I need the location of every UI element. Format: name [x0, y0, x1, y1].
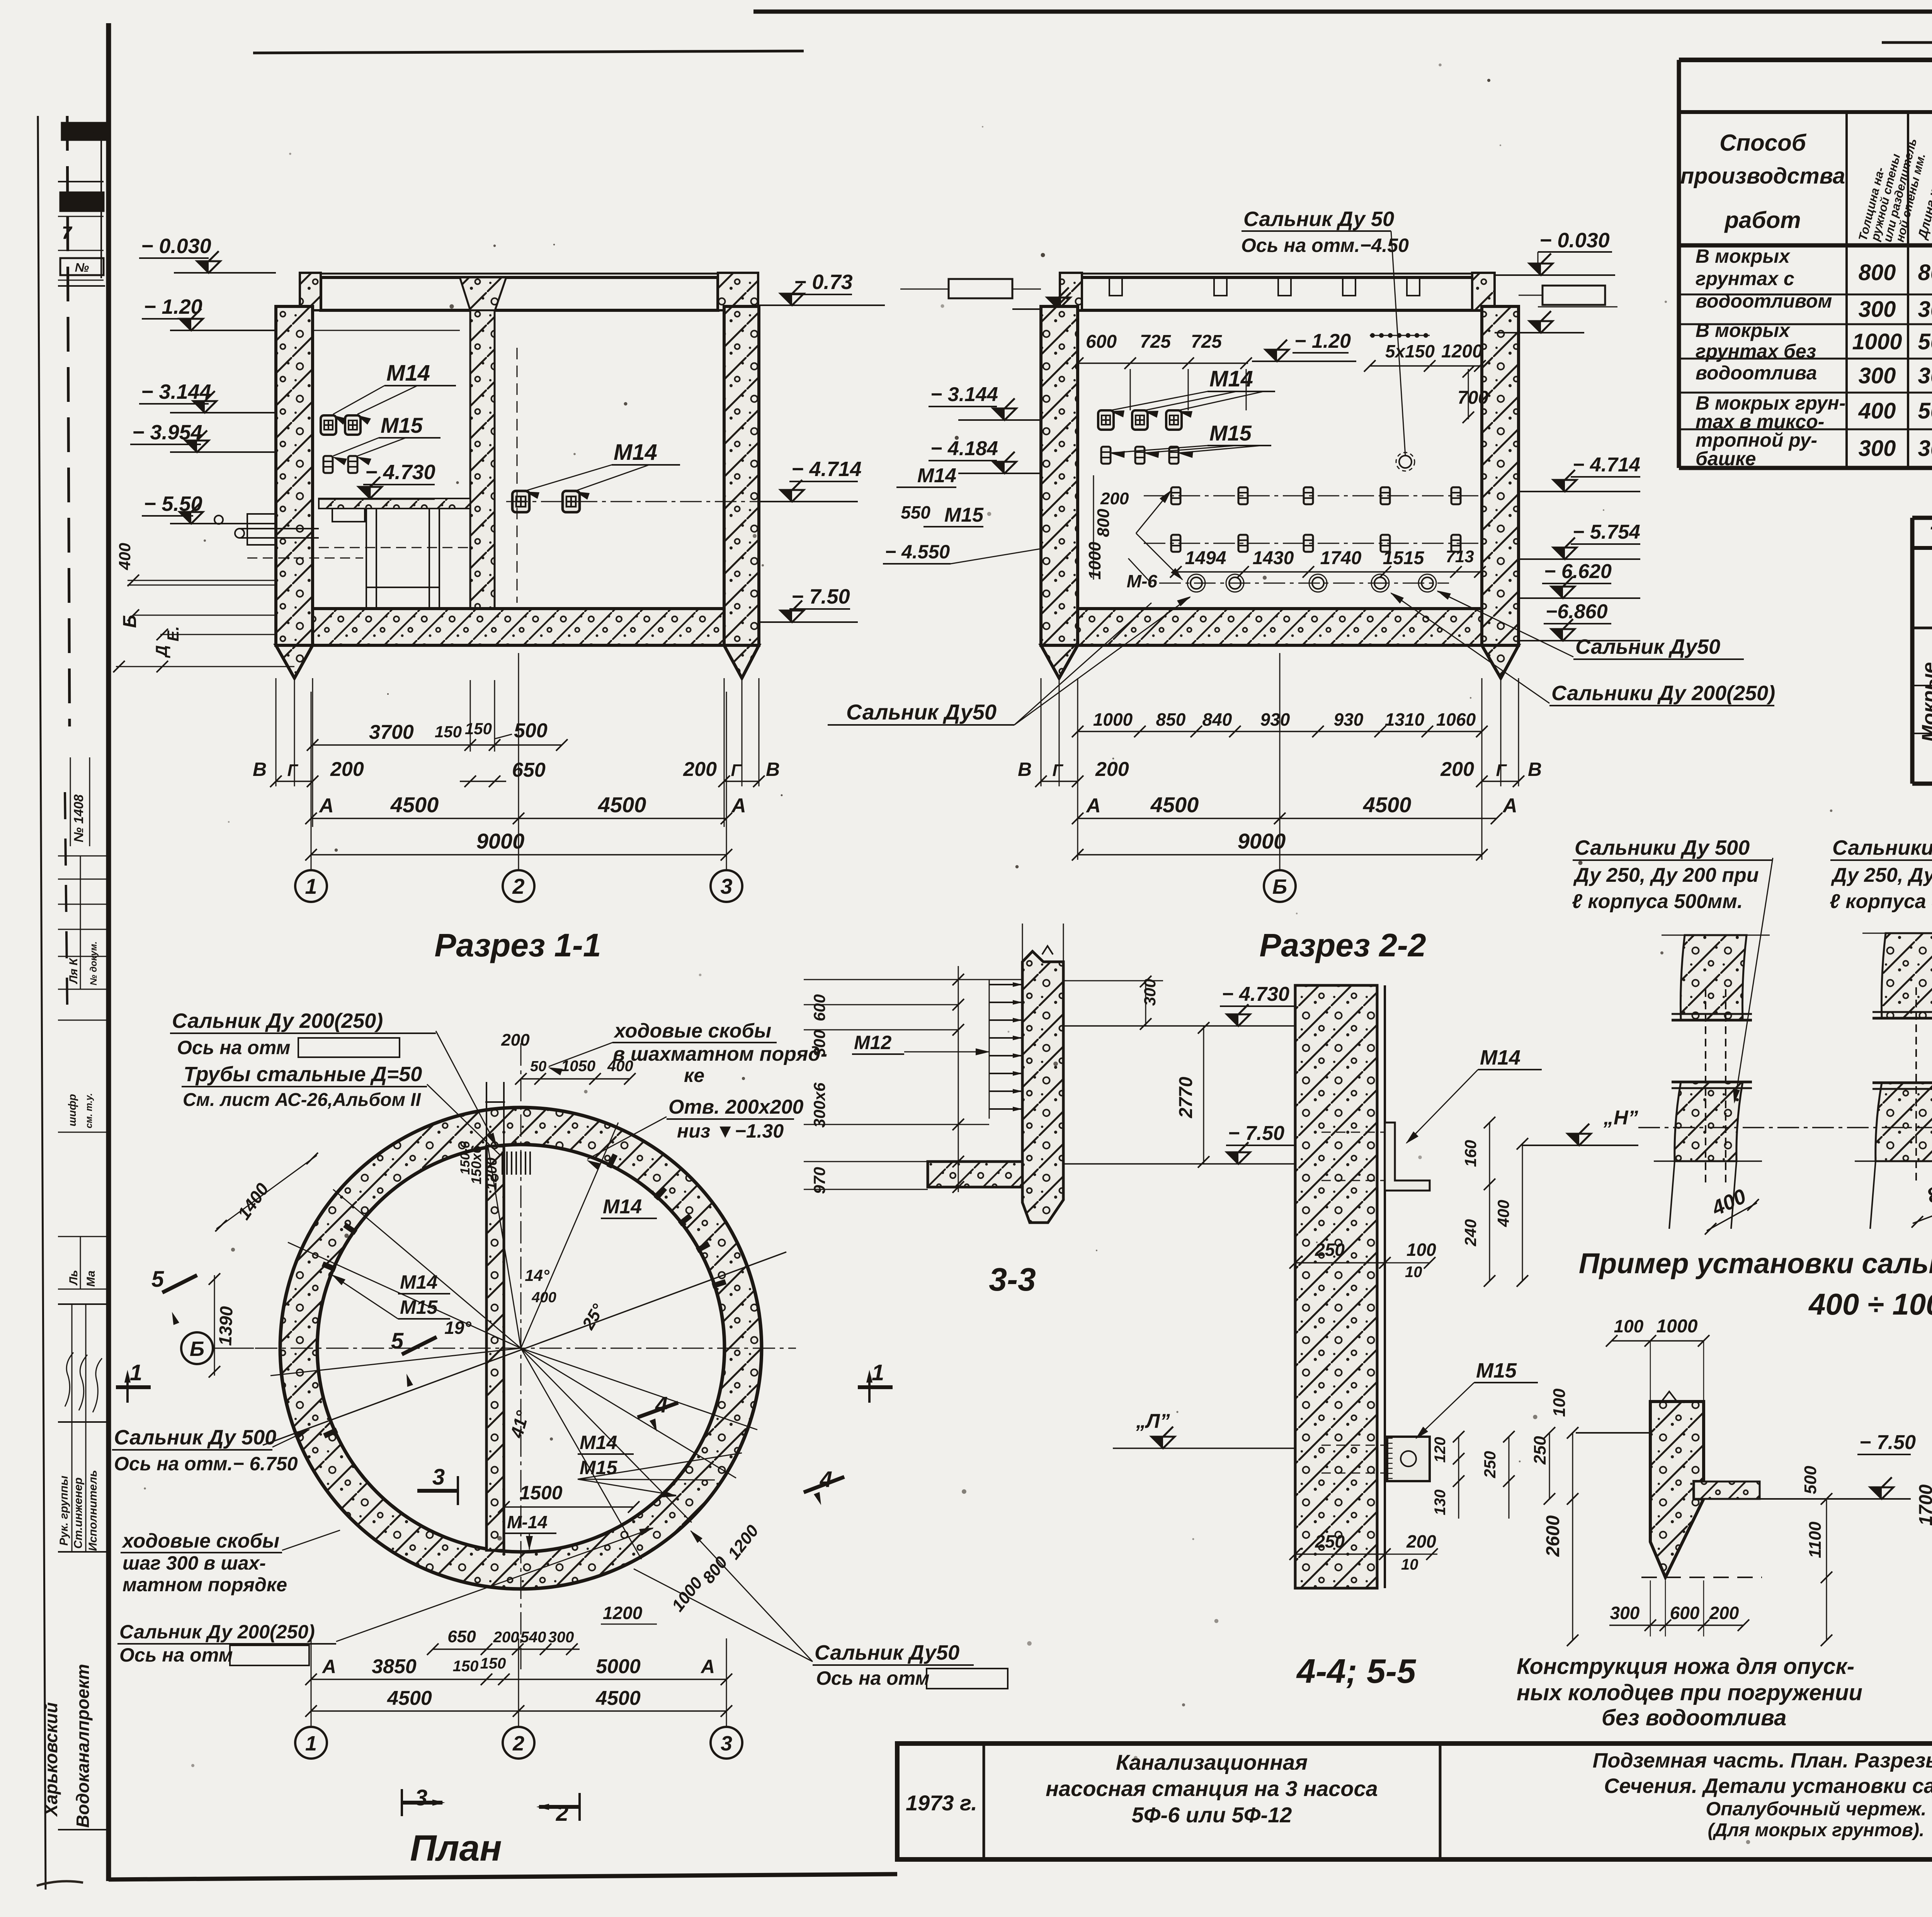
svg-text:Рук. группы: Рук. группы: [58, 1476, 70, 1546]
ground blocks 2-2: [949, 279, 1012, 298]
svg-text:Сальники Ду 500: Сальники Ду 500: [1832, 836, 1932, 859]
svg-text:725: 725: [1140, 332, 1171, 352]
svg-text:800: 800: [1094, 509, 1113, 537]
svg-text:Сальник Ду 500: Сальник Ду 500: [114, 1426, 276, 1449]
bottom slab 2-2: [1078, 609, 1482, 645]
svg-text:см. т.у.: см. т.у.: [84, 1093, 94, 1128]
svg-text:300x6: 300x6: [810, 1082, 828, 1128]
svg-text:Опалубочный чертеж.: Опалубочный чертеж.: [1706, 1798, 1926, 1820]
3-3 wall: [1022, 951, 1063, 1223]
svg-text:4500: 4500: [390, 793, 439, 817]
scan specks: [940, 304, 944, 308]
svg-text:− 0.030: − 0.030: [1539, 229, 1610, 252]
svg-text:100: 100: [1406, 1240, 1436, 1260]
svg-text:М14: М14: [386, 361, 430, 386]
svg-text:ℓ корпуса 800мм.: ℓ корпуса 800мм.: [1830, 890, 1932, 913]
svg-text:Г: Г: [731, 761, 742, 780]
svg-text:Г: Г: [287, 761, 298, 780]
svg-text:850: 850: [1156, 709, 1186, 730]
svg-text:− 7.50: − 7.50: [1859, 1431, 1916, 1454]
svg-text:ходовые скобы: ходовые скобы: [613, 1020, 771, 1042]
svg-text:М-14: М-14: [507, 1512, 548, 1532]
svg-text:1: 1: [872, 1360, 884, 1385]
svg-text:150: 150: [480, 1655, 506, 1672]
left margin stamps: [62, 123, 105, 140]
svg-text:ке: ке: [684, 1065, 704, 1086]
svg-text:500: 500: [1918, 329, 1932, 354]
svg-text:Ось на отм: Ось на отм: [816, 1667, 930, 1689]
svg-text:Б: Б: [120, 615, 140, 628]
svg-text:300: 300: [1918, 297, 1932, 322]
table1 Выборка сальников: [1882, 41, 1932, 44]
table2 Таблица размеров ножей: [1912, 516, 1932, 520]
svg-text:А: А: [321, 1656, 336, 1677]
svg-text:300: 300: [810, 1030, 828, 1057]
svg-text:−6.860: −6.860: [1546, 600, 1608, 623]
svg-text:1430: 1430: [1253, 548, 1294, 568]
svg-text:9000: 9000: [1238, 829, 1286, 853]
svg-text:М14: М14: [1480, 1046, 1520, 1069]
svg-text:500: 500: [1801, 1466, 1820, 1494]
svg-text:В: В: [253, 759, 267, 780]
svg-text:№: №: [75, 260, 89, 274]
svg-text:713: 713: [1446, 547, 1474, 566]
svg-text:400: 400: [1494, 1200, 1512, 1227]
svg-text:Ля К: Ля К: [67, 957, 80, 984]
svg-text:300: 300: [1610, 1603, 1640, 1623]
svg-text:Сальник Ду 200(250): Сальник Ду 200(250): [172, 1009, 383, 1032]
svg-text:50: 50: [530, 1058, 546, 1075]
dims row4 1-1: 9000: [311, 854, 726, 856]
svg-text:ℓ корпуса 500мм.: ℓ корпуса 500мм.: [1572, 890, 1743, 913]
svg-text:500: 500: [514, 720, 548, 742]
svg-text:− 0.73: − 0.73: [794, 270, 853, 294]
svg-text:550: 550: [901, 502, 930, 522]
svg-text:600: 600: [810, 994, 828, 1021]
3-3 left dims: [958, 966, 959, 1192]
svg-text:1000: 1000: [1656, 1316, 1698, 1337]
svg-text:грунтах без: грунтах без: [1696, 340, 1816, 362]
svg-text:водоотлива: водоотлива: [1696, 362, 1817, 384]
svg-text:10: 10: [1405, 1264, 1422, 1281]
svg-text:150-6: 150-6: [458, 1141, 473, 1175]
svg-text:Отв. 200x200: Отв. 200x200: [668, 1096, 804, 1118]
svg-text:1200: 1200: [1441, 341, 1483, 362]
anchors row A 2-2: [1098, 410, 1114, 430]
svg-text:См. лист АС-26,Альбом II: См. лист АС-26,Альбом II: [183, 1090, 422, 1110]
svg-text:5x150: 5x150: [1385, 341, 1435, 361]
svg-text:4500: 4500: [595, 1687, 641, 1709]
svg-text:150: 150: [435, 723, 462, 741]
svg-text:1310: 1310: [1385, 709, 1425, 730]
extension lines 2-2: [1041, 678, 1042, 786]
svg-text:3: 3: [720, 874, 732, 898]
svg-text:Д: Д: [152, 645, 170, 658]
svg-text:− 6.620: − 6.620: [1544, 560, 1612, 583]
svg-text:1515: 1515: [1383, 548, 1425, 568]
svg-text:Водоканалпроект: Водоканалпроект: [73, 1664, 93, 1828]
svg-text:1100: 1100: [1806, 1521, 1825, 1558]
svg-text:300: 300: [548, 1629, 574, 1646]
svg-text:130: 130: [1432, 1490, 1449, 1516]
svg-text:Харьковский: Харьковский: [41, 1702, 61, 1817]
svg-text:800: 800: [1859, 260, 1896, 285]
svg-text:300: 300: [1918, 363, 1932, 388]
svg-text:Разрез 2-2: Разрез 2-2: [1259, 927, 1426, 963]
svg-text:930: 930: [1334, 709, 1364, 730]
svg-text:3: 3: [415, 1785, 427, 1810]
svg-text:М14: М14: [614, 440, 657, 465]
4-4 right dims: [1489, 1123, 1490, 1281]
plan centerlines: [255, 1348, 796, 1349]
svg-text:Подземная часть. План. Разре: Подземная часть. План. Разрезы 1-1 и 2-2…: [1593, 1749, 1932, 1772]
svg-text:3: 3: [721, 1732, 732, 1755]
svg-text:− 4.714: − 4.714: [791, 458, 862, 481]
svg-text:Ма: Ма: [85, 1271, 97, 1287]
svg-text:100: 100: [1614, 1316, 1644, 1336]
svg-text:СОВХ: СОВХ: [68, 126, 99, 138]
svg-text:− 4.714: − 4.714: [1573, 454, 1640, 476]
svg-text:Ось на отм: Ось на отм: [177, 1037, 291, 1058]
svg-text:работ: работ: [1724, 207, 1801, 233]
svg-text:4-4; 5-5: 4-4; 5-5: [1296, 1652, 1416, 1690]
svg-text:300: 300: [1859, 436, 1896, 461]
svg-text:400 ÷ 1000: 400 ÷ 1000: [1808, 1287, 1932, 1321]
svg-text:В мокрых: В мокрых: [1696, 245, 1791, 267]
svg-text:Мокрые: Мокрые: [1918, 662, 1932, 742]
svg-text:М14: М14: [400, 1271, 437, 1293]
plan rebar marks top: [502, 1152, 503, 1175]
svg-text:В мокрых: В мокрых: [1696, 320, 1791, 341]
svg-text:Сальник Ду50: Сальник Ду50: [846, 700, 997, 724]
svg-text:Канализационная: Канализационная: [1116, 1750, 1308, 1774]
dims row4 2-2: [1078, 854, 1482, 856]
knife left bottom dims: [1609, 1624, 1743, 1626]
plan axis circles: [295, 1727, 327, 1759]
plan ring: [280, 1107, 762, 1589]
dims row2 2-2: [1041, 781, 1078, 782]
5-5 M15 plate: [1387, 1437, 1430, 1481]
svg-text:3-3: 3-3: [989, 1261, 1036, 1298]
dims row1 1-1: 3700 150 150 500: [313, 744, 562, 746]
top slab 1-1: [300, 273, 758, 275]
svg-text:2770: 2770: [1176, 1077, 1196, 1118]
svg-text:М14: М14: [580, 1432, 617, 1453]
svg-text:200: 200: [1406, 1531, 1436, 1551]
4-4 M14 bracket: [1385, 1123, 1430, 1191]
svg-text:матном порядке: матном порядке: [122, 1574, 287, 1596]
svg-text:250: 250: [1531, 1436, 1549, 1465]
4-4 wall strip: [1295, 985, 1377, 1588]
svg-text:− 4.730: − 4.730: [1222, 983, 1289, 1005]
svg-text:14°: 14°: [525, 1266, 550, 1284]
svg-text:ных колодцев при погружении: ных колодцев при погружении: [1517, 1680, 1862, 1705]
svg-text:1: 1: [305, 1732, 317, 1755]
left margin scan marks: [67, 116, 70, 726]
svg-text:грунтах с: грунтах с: [1696, 268, 1794, 289]
svg-text:шаг 300 в шах-: шаг 300 в шах-: [122, 1552, 266, 1574]
svg-text:700: 700: [1458, 388, 1488, 408]
svg-text:М15: М15: [1476, 1359, 1517, 1382]
svg-text:Таблица размеров ножей, стен: Таблица размеров ножей, стен и днищ опус…: [1929, 522, 1932, 548]
svg-text:250: 250: [1315, 1531, 1345, 1551]
svg-text:250: 250: [1481, 1451, 1499, 1478]
svg-text:М12: М12: [854, 1032, 891, 1053]
svg-text:5: 5: [391, 1328, 404, 1354]
svg-text:725: 725: [1191, 332, 1222, 352]
svg-text:Сальники Ду 200(250): Сальники Ду 200(250): [1551, 682, 1775, 705]
svg-text:200: 200: [493, 1629, 519, 1646]
svg-text:Ось на отм.− 6.750: Ось на отм.− 6.750: [114, 1453, 298, 1475]
svg-text:Сальник Ду50: Сальник Ду50: [815, 1641, 959, 1664]
svg-text:600: 600: [1086, 332, 1117, 352]
svg-text:Ось на отм: Ось на отм: [119, 1644, 233, 1666]
svg-text:А: А: [1502, 794, 1517, 817]
svg-text:1700: 1700: [1916, 1484, 1932, 1526]
svg-text:1060: 1060: [1436, 709, 1476, 730]
svg-text:4: 4: [655, 1392, 668, 1417]
svg-text:200: 200: [1440, 758, 1474, 781]
svg-text:Ст.инженер: Ст.инженер: [72, 1477, 85, 1549]
svg-text:шифр: шифр: [66, 1094, 78, 1126]
dims row3 2-2: [1078, 818, 1497, 819]
axis B circle plan: [181, 1332, 213, 1364]
svg-text:4500: 4500: [598, 793, 646, 817]
svg-text:башке: башке: [1696, 448, 1756, 469]
svg-text:в шахматном поряд-: в шахматном поряд-: [613, 1043, 827, 1065]
svg-text:Сечения. Детали установки с: Сечения. Детали установки сальников.: [1604, 1774, 1932, 1798]
svg-text:200: 200: [1100, 489, 1129, 508]
svg-text:200: 200: [683, 758, 717, 781]
svg-text:А: А: [1085, 794, 1101, 817]
svg-text:− 3.144: − 3.144: [141, 380, 211, 403]
middle wall 1-1: [470, 310, 495, 609]
svg-text:250: 250: [1315, 1240, 1345, 1260]
svg-text:650: 650: [512, 759, 546, 781]
svg-text:200: 200: [330, 758, 364, 781]
svg-text:2: 2: [556, 1801, 568, 1826]
svg-text:Разрез 1-1: Разрез 1-1: [434, 927, 601, 963]
svg-text:Сальник Ду 50: Сальник Ду 50: [1243, 208, 1394, 231]
knife detail left: [1650, 1402, 1704, 1577]
svg-text:2600: 2600: [1543, 1515, 1563, 1557]
svg-text:− 3.144: − 3.144: [930, 383, 998, 406]
svg-text:План: План: [410, 1828, 502, 1869]
svg-text:М15: М15: [944, 504, 984, 526]
svg-text:300: 300: [1918, 436, 1932, 461]
svg-text:1000: 1000: [1085, 542, 1104, 580]
svg-text:А: А: [731, 794, 746, 817]
svg-text:200: 200: [501, 1031, 530, 1050]
svg-text:М-6: М-6: [1127, 571, 1158, 591]
svg-text:№ 1408: № 1408: [71, 794, 86, 842]
svg-text:− 5.754: − 5.754: [1573, 521, 1640, 543]
axis circle B 2-2: [1264, 870, 1296, 902]
svg-text:низ ▼−1.30: низ ▼−1.30: [677, 1120, 784, 1142]
svg-text:400: 400: [1858, 398, 1896, 424]
svg-text:2: 2: [512, 1732, 524, 1755]
svg-text:300: 300: [1859, 363, 1896, 388]
svg-text:4: 4: [820, 1467, 832, 1492]
anchor M14 1-1: [321, 415, 336, 435]
3-3 slab: [928, 1162, 1022, 1187]
dims row3 1-1: 4500 4500: [311, 818, 726, 819]
svg-text:1: 1: [305, 874, 317, 898]
svg-text:540: 540: [520, 1629, 546, 1646]
svg-text:5Ф-6 или 5Ф-12: 5Ф-6 или 5Ф-12: [1132, 1803, 1292, 1827]
svg-text:Б: Б: [190, 1337, 204, 1361]
svg-text:− 7.50: − 7.50: [791, 585, 850, 608]
svg-text:600: 600: [1670, 1603, 1700, 1623]
svg-text:М14: М14: [917, 464, 956, 487]
svg-text:240: 240: [1461, 1219, 1480, 1247]
svg-text:300: 300: [1859, 297, 1896, 322]
anchors row D 2-2: [1171, 535, 1180, 552]
svg-text:Г: Г: [1052, 761, 1063, 780]
svg-text:930: 930: [1260, 709, 1290, 730]
svg-text:В: В: [766, 759, 780, 780]
svg-text:ходовые скобы: ходовые скобы: [121, 1530, 279, 1552]
svg-text:2: 2: [512, 874, 524, 898]
svg-text:19°: 19°: [444, 1318, 471, 1338]
svg-text:400: 400: [116, 543, 134, 570]
svg-text:1740: 1740: [1320, 548, 1362, 568]
svg-text:1500: 1500: [519, 1482, 562, 1504]
top slab 2-2: [1060, 273, 1495, 275]
svg-text:400: 400: [531, 1289, 556, 1306]
3-3 top extension: [1022, 924, 1023, 962]
svg-text:1: 1: [130, 1360, 142, 1385]
svg-text:1200: 1200: [603, 1603, 643, 1623]
3-3 rungs: [989, 980, 990, 1119]
svg-text:ЛИСТ: ЛИСТ: [65, 197, 99, 210]
sheet frame: [753, 10, 1932, 14]
right wall 1-1: [724, 306, 759, 645]
svg-text:4500: 4500: [1363, 793, 1412, 817]
svg-text:без водоотлива: без водоотлива: [1602, 1705, 1786, 1730]
dims row2 1-1: 200 650 200: [276, 781, 313, 782]
svg-text:1390: 1390: [215, 1306, 236, 1346]
svg-text:Г: Г: [1496, 761, 1507, 780]
svg-text:− 1.20: − 1.20: [1294, 330, 1351, 352]
gland circles 2-2: [1190, 577, 1202, 589]
svg-text:1494: 1494: [1185, 548, 1226, 568]
svg-text:А: А: [700, 1656, 715, 1677]
anchors row C 2-2: [1171, 487, 1180, 504]
svg-text:М14: М14: [603, 1196, 642, 1218]
svg-text:№ докум.: № докум.: [88, 941, 99, 985]
plan anchor ticks on ring: [323, 1264, 335, 1269]
svg-text:Сальник Ду 200(250): Сальник Ду 200(250): [119, 1621, 315, 1643]
svg-text:5: 5: [151, 1267, 164, 1292]
gland strip 800: [1881, 933, 1932, 1018]
svg-text:(Для мокрых грунтов).: (Для мокрых грунтов).: [1708, 1820, 1925, 1840]
svg-text:100: 100: [1550, 1388, 1569, 1417]
svg-text:Трубы стальные Д=50: Трубы стальные Д=50: [184, 1063, 422, 1086]
svg-text:Б: Б: [1272, 875, 1287, 898]
gland axis dash-dot: [1638, 1127, 1932, 1128]
svg-text:Ось на отм.−4.50: Ось на отм.−4.50: [1241, 235, 1409, 256]
svg-text:Конструкция ножа для опуск-: Конструкция ножа для опуск-: [1517, 1654, 1854, 1679]
left wall 1-1: [276, 306, 313, 645]
svg-text:Способ: Способ: [1719, 130, 1807, 156]
svg-text:А: А: [318, 794, 334, 817]
svg-text:650: 650: [447, 1627, 476, 1646]
svg-text:М15: М15: [400, 1296, 438, 1318]
extension lines 1-1: [276, 678, 277, 786]
svg-text:− 1.20: − 1.20: [144, 295, 202, 318]
svg-text:водоотливом: водоотливом: [1696, 290, 1832, 312]
svg-text:200: 200: [1709, 1603, 1739, 1623]
svg-text:4500: 4500: [387, 1687, 432, 1709]
svg-text:9000: 9000: [476, 829, 525, 853]
svg-text:5000: 5000: [596, 1655, 641, 1678]
svg-text:4500: 4500: [1150, 793, 1199, 817]
bottom slab 1-1: [313, 609, 724, 645]
plan dividing wall: [486, 1146, 504, 1550]
svg-text:производства: производства: [1680, 163, 1845, 189]
bottom dims 2-2: [1078, 731, 1482, 732]
svg-text:В: В: [1528, 759, 1542, 780]
svg-text:160: 160: [1461, 1140, 1480, 1167]
title block: [897, 1744, 1932, 1859]
svg-text:840: 840: [1202, 709, 1232, 730]
svg-text:Исполнитель: Исполнитель: [87, 1470, 99, 1551]
svg-text:Сальник Ду50: Сальник Ду50: [1575, 635, 1720, 658]
svg-text:200: 200: [1095, 758, 1129, 781]
svg-text:М15: М15: [1209, 421, 1252, 445]
anchors row B 2-2: [1101, 447, 1111, 464]
svg-text:1000: 1000: [1093, 709, 1133, 730]
svg-text:3: 3: [432, 1465, 445, 1490]
svg-text:− 7.50: − 7.50: [1228, 1122, 1284, 1145]
plan axis dims: [311, 1679, 726, 1680]
svg-text:1200: 1200: [484, 1157, 500, 1190]
svg-text:1973 г.: 1973 г.: [906, 1791, 977, 1815]
svg-text:„Л”: „Л”: [1136, 1410, 1170, 1432]
svg-text:120: 120: [1432, 1437, 1449, 1463]
svg-text:500: 500: [1918, 398, 1932, 424]
svg-text:1000: 1000: [1852, 329, 1902, 354]
plan radial lines: [288, 1242, 521, 1348]
svg-text:150: 150: [453, 1658, 479, 1675]
svg-text:800: 800: [1918, 260, 1932, 285]
svg-text:− 4.550: − 4.550: [885, 541, 950, 563]
svg-text:Ду 250, Ду 200 при: Ду 250, Ду 200 при: [1831, 864, 1932, 886]
svg-text:В: В: [1018, 759, 1032, 780]
svg-text:3850: 3850: [372, 1655, 417, 1678]
ground flag left 2-2: [1047, 287, 1070, 309]
axis circles 1-1: [295, 870, 327, 902]
pump platform: [319, 498, 470, 509]
gland strip 400: [1680, 935, 1747, 1020]
svg-text:насосная станция на 3 насоса: насосная станция на 3 насоса: [1046, 1776, 1378, 1801]
svg-text:10: 10: [1401, 1556, 1418, 1573]
left wall 2-2: [1041, 306, 1078, 645]
right wall 2-2: [1482, 306, 1519, 645]
svg-text:„Н”: „Н”: [1603, 1107, 1638, 1129]
5-5 right dims: [1458, 1437, 1459, 1519]
svg-text:М15: М15: [580, 1457, 617, 1478]
anchor M15 1-1: [323, 456, 333, 473]
anchor M14 right room 1-1: [512, 491, 529, 512]
svg-text:Пример установки сальников при: Пример установки сальников при толщине с…: [1579, 1247, 1932, 1279]
svg-text:М15: М15: [381, 413, 423, 437]
svg-text:Сальники Ду 500: Сальники Ду 500: [1575, 836, 1750, 859]
svg-text:3700: 3700: [369, 721, 414, 743]
svg-text:Ду 250, Ду 200 при: Ду 250, Ду 200 при: [1573, 864, 1759, 886]
svg-text:− 0.030: − 0.030: [141, 235, 211, 258]
